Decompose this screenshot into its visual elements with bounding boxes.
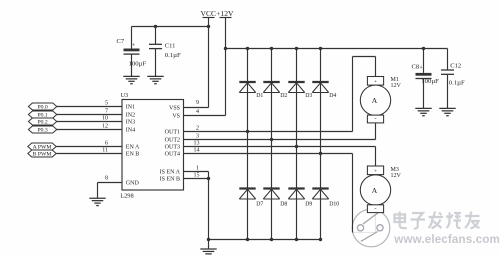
svg-text:D9: D9 xyxy=(305,202,312,208)
svg-text:OUT2: OUT2 xyxy=(165,138,180,144)
diode D3 xyxy=(288,82,312,99)
svg-text:C11: C11 xyxy=(165,43,176,50)
svg-text:+: + xyxy=(419,64,423,71)
watermark text dianzifashaoyou xyxy=(395,212,481,230)
wire P0.1 to IC pin 7 xyxy=(57,108,122,114)
svg-text:VS: VS xyxy=(172,114,180,120)
svg-text:7: 7 xyxy=(105,108,108,114)
wire pin 1 IS EN A xyxy=(184,165,209,171)
op IC U3 L298 xyxy=(120,92,183,199)
ground for logic xyxy=(200,240,216,255)
svg-text:P0.2: P0.2 xyxy=(37,120,47,126)
svg-text:P0.0: P0.0 xyxy=(37,105,47,111)
wire IS EN A/B to ground xyxy=(207,172,210,240)
svg-text:C12: C12 xyxy=(450,63,461,70)
diode D9 xyxy=(288,189,312,208)
wire pin 15 IS EN B xyxy=(184,172,209,178)
wire VCC to VS pin 4 xyxy=(225,18,227,116)
svg-text:OUT3: OUT3 xyxy=(165,145,180,151)
node B PWM connector xyxy=(28,150,56,158)
svg-text:IN3: IN3 xyxy=(126,120,135,126)
node P0.3 connector xyxy=(28,126,56,134)
svg-text:14: 14 xyxy=(194,147,200,153)
wire P0.2 to IC pin 10 xyxy=(57,115,122,121)
wire pin 8 GND xyxy=(98,176,123,199)
svg-text:IN1: IN1 xyxy=(126,105,135,111)
svg-text:-: - xyxy=(374,205,376,212)
svg-text:OUT1: OUT1 xyxy=(165,130,180,136)
svg-text:C7: C7 xyxy=(117,38,125,45)
svg-text:3: 3 xyxy=(196,133,199,139)
wire top VCC rail xyxy=(224,47,448,50)
svg-text:+: + xyxy=(374,79,377,85)
svg-text:EN A: EN A xyxy=(126,145,140,151)
svg-text:EN B: EN B xyxy=(126,152,140,158)
svg-text:D4: D4 xyxy=(329,93,336,99)
diode D8 xyxy=(263,189,287,208)
svg-text:1: 1 xyxy=(196,165,199,171)
diode D1 xyxy=(239,82,263,99)
ground for C12 xyxy=(439,108,455,115)
node A PWM connector xyxy=(28,143,56,151)
svg-text:D2: D2 xyxy=(280,93,287,99)
wire B PWM to IC pin 11 xyxy=(56,147,122,153)
svg-text:A: A xyxy=(372,186,378,195)
wire pin 13 OUT3 to motor M3 top xyxy=(184,140,376,166)
wire OUT4 vertical xyxy=(184,147,353,232)
wire pin 14 OUT4 to motor M3 bottom (part hidden by watermark) xyxy=(353,214,376,233)
svg-text:5: 5 xyxy=(105,100,108,106)
svg-text:B PWM: B PWM xyxy=(33,152,52,158)
capacitor C8 100uF xyxy=(412,49,440,109)
svg-text:L298: L298 xyxy=(120,192,133,199)
svg-text:IN4: IN4 xyxy=(126,128,135,134)
svg-text:11: 11 xyxy=(102,147,108,153)
svg-text:www.elecfans.com: www.elecfans.com xyxy=(393,233,500,246)
svg-text:0.1µF: 0.1µF xyxy=(165,52,181,59)
svg-text:12: 12 xyxy=(102,123,108,129)
svg-text:8: 8 xyxy=(105,176,108,182)
wire pin 2 OUT1 to motor M1 top xyxy=(184,57,376,132)
wire capacitor branch C7-C11 to VCC xyxy=(132,25,211,28)
capacitor C11 0.1uF xyxy=(149,27,181,77)
node P0.2 connector xyxy=(28,118,56,126)
watermark logo circle xyxy=(352,209,390,247)
svg-text:D3: D3 xyxy=(305,93,312,99)
svg-text:A: A xyxy=(372,96,378,105)
svg-text:10: 10 xyxy=(102,115,108,121)
diode D10 xyxy=(312,189,339,208)
motor M3 12V xyxy=(360,166,401,213)
svg-text:VSS: VSS xyxy=(169,106,180,112)
wire diode column 3 xyxy=(295,49,298,242)
ground for C11 xyxy=(147,76,163,83)
svg-text:D1: D1 xyxy=(256,93,263,99)
svg-text:GND: GND xyxy=(126,181,140,187)
svg-text:OUT4: OUT4 xyxy=(165,152,180,158)
svg-text:IS EN B: IS EN B xyxy=(160,177,180,183)
wire P0.0 to IC pin 5 xyxy=(57,100,122,106)
wire diode column 2 xyxy=(270,49,273,242)
wire A PWM to IC pin 6 xyxy=(56,140,122,146)
motor M1 12V xyxy=(360,77,401,123)
wire VCC to VSS pin 9 xyxy=(208,18,210,108)
svg-text:IS EN A: IS EN A xyxy=(160,170,181,176)
wire pin 4 VS xyxy=(184,109,226,116)
node P0.0 connector xyxy=(28,103,56,111)
ground for C8 xyxy=(415,108,431,115)
svg-text:IN2: IN2 xyxy=(126,113,135,119)
ground for IC pin 8 xyxy=(89,198,105,205)
svg-text:12V: 12V xyxy=(391,83,402,89)
svg-text:100µF: 100µF xyxy=(129,61,147,68)
svg-text:C8: C8 xyxy=(412,64,420,71)
svg-text:D7: D7 xyxy=(256,202,263,208)
diode D4 xyxy=(312,82,336,99)
svg-text:6: 6 xyxy=(105,140,108,146)
svg-text:0.1µF: 0.1µF xyxy=(449,80,465,87)
power net VCC+12V label xyxy=(201,9,234,18)
svg-text:D10: D10 xyxy=(329,202,339,208)
svg-text:2: 2 xyxy=(196,126,199,132)
wire P0.3 to IC pin 12 xyxy=(57,123,122,129)
wire diode column 1 xyxy=(246,49,249,242)
svg-text:D8: D8 xyxy=(280,202,287,208)
wire bottom ground rail xyxy=(207,238,321,241)
svg-text:13: 13 xyxy=(194,140,200,146)
svg-text:VCC+12V: VCC+12V xyxy=(201,9,234,18)
wire pin 3 OUT2 to motor M1 bottom xyxy=(184,123,376,139)
ground for C7 xyxy=(123,76,139,83)
svg-text:+: + xyxy=(374,168,377,174)
svg-text:15: 15 xyxy=(194,172,200,178)
diode D2 xyxy=(263,82,287,99)
svg-text:9: 9 xyxy=(196,100,199,106)
svg-text:U3: U3 xyxy=(121,92,129,99)
svg-text:100µF: 100µF xyxy=(421,78,439,85)
capacitor C12 0.1uF xyxy=(441,49,465,109)
svg-text:12V: 12V xyxy=(391,173,402,179)
capacitor C7 100uF xyxy=(117,27,147,77)
svg-text:4: 4 xyxy=(196,109,199,115)
svg-text:+: + xyxy=(132,42,136,49)
wire diode column 4 xyxy=(319,49,322,242)
node P0.1 connector xyxy=(28,111,56,119)
wire pin 9 VSS xyxy=(184,100,209,108)
svg-text:-: - xyxy=(374,116,376,123)
svg-text:P0.3: P0.3 xyxy=(37,128,47,134)
diode D7 xyxy=(239,189,263,208)
watermark text www.elecfans.com xyxy=(393,233,500,247)
